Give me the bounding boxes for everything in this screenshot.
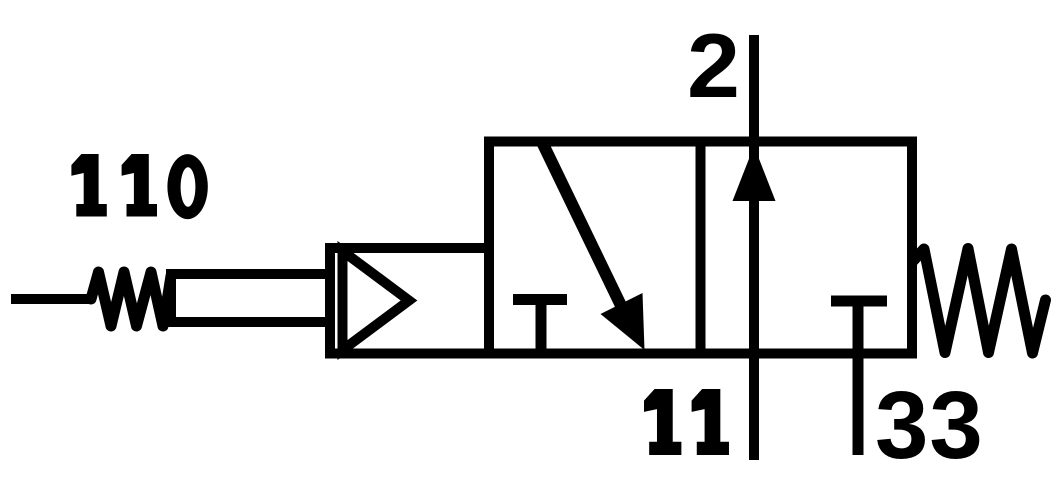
valve body outline (two-position 3/2 valve V1): [489, 142, 912, 354]
arrowhead of diagonal flow path (points down-right to port 3): [601, 293, 645, 350]
valve position divider line: [696, 142, 706, 354]
label 110: solenoid designator, digit 1 (second): [122, 154, 157, 217]
blocked port T symbol (right square, port 3): crossbar: [831, 296, 887, 307]
blocked port T symbol (right square, port 3): stem and port 3 lead: [853, 301, 864, 455]
svg-text:2: 2: [687, 16, 740, 117]
diagonal flow path arrow shaft (left square, actuated position 2->3): [542, 142, 627, 318]
svg-text:33: 33: [875, 372, 984, 479]
blocked port T symbol (left square, port 1): crossbar: [513, 294, 567, 305]
label 110: solenoid designator, digit 0: [167, 154, 207, 219]
blocked port T symbol (left square, port 1): stem: [536, 300, 547, 354]
resistor zigzag: solenoid coil winding symbol: [91, 272, 171, 326]
return spring (right side): [913, 249, 1046, 354]
label 110: solenoid designator, digit 1: [71, 154, 106, 217]
vertical flow line through right square and ports 2/1: [749, 35, 759, 460]
solenoid armature rectangle (plunger): [171, 274, 330, 322]
arrowhead of vertical flow path (points up to port 2): [733, 146, 776, 201]
label 11: inlet port number, digit 1 (second): [692, 389, 729, 455]
wire: left lead of solenoid coil: [11, 294, 91, 304]
pilot amplifier triangle: [343, 251, 410, 350]
label 11: inlet port number, digit 1: [644, 389, 681, 455]
pilot actuator box U1: [330, 248, 489, 354]
